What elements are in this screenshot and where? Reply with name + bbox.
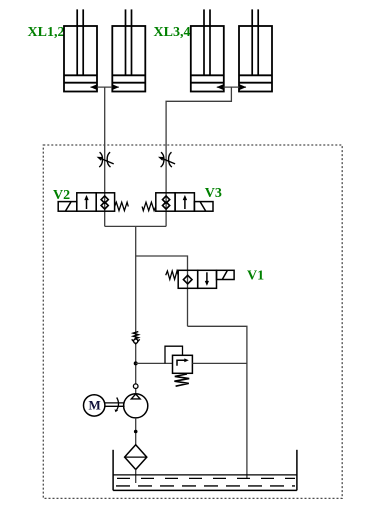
- valve V3: [142, 193, 213, 211]
- position square V1 arrow-down: [198, 270, 217, 288]
- node above filter: [134, 430, 138, 434]
- wire pair2 feed with arrows into XL3 and XL4: [217, 84, 247, 90]
- position square V3 arrow-up: [175, 193, 194, 211]
- wire pair2 jog down-left to V3: [166, 87, 231, 226]
- check valve on main line: [132, 332, 140, 344]
- position square V1 check: [178, 270, 198, 288]
- position square V2 check: [96, 193, 114, 211]
- throttle valve above V3: [158, 152, 175, 167]
- svg-text:XL1,2: XL1,2: [28, 25, 65, 40]
- svg-text:XL3,4: XL3,4: [154, 25, 191, 40]
- dashed enclosure border: [43, 145, 342, 498]
- solenoid box V1: [217, 270, 235, 279]
- position square V3 check: [156, 193, 175, 211]
- spring V1: [166, 271, 179, 279]
- wire pump suction down: [135, 418, 137, 445]
- wire V1 down and over to return: [188, 326, 247, 478]
- node junction to relief valve: [134, 361, 138, 365]
- valve V1: [166, 270, 234, 288]
- motor M: [84, 395, 105, 416]
- cylinder XL3: [191, 9, 224, 91]
- relief valve spring: [174, 374, 189, 386]
- port circle above pump: [133, 384, 138, 389]
- wire relief valve out to return line: [192, 362, 247, 364]
- spring V2: [115, 202, 129, 210]
- svg-text:M: M: [88, 397, 100, 412]
- position square V2 arrow-up: [77, 193, 96, 211]
- wire branch to V1: [136, 256, 188, 326]
- svg-text:V1: V1: [247, 269, 264, 284]
- solenoid box V2: [58, 202, 77, 212]
- cylinder XL4: [239, 9, 272, 91]
- throttle valve above V2: [97, 152, 114, 167]
- spring V3: [142, 202, 156, 210]
- wire main pressure line down: [135, 226, 137, 393]
- wire pair1 feed with arrows into XL1 and XL2: [90, 84, 119, 90]
- solenoid box V3: [194, 202, 213, 212]
- relief valve: [165, 346, 192, 386]
- pump: [124, 394, 148, 418]
- cylinder XL2: [112, 9, 145, 91]
- svg-text:V3: V3: [205, 186, 222, 201]
- svg-text:V2: V2: [53, 188, 70, 203]
- filter: [125, 445, 147, 470]
- wire to relief valve: [136, 362, 173, 364]
- wire manifold horizontal: [105, 225, 166, 227]
- tank: [113, 450, 297, 491]
- valve V2: [58, 193, 128, 211]
- wire filter to tank: [135, 470, 137, 484]
- shaft motor-pump: [105, 398, 125, 413]
- wire pair1 down to V2: [104, 87, 106, 226]
- relief valve pilot line: [165, 346, 183, 363]
- cylinder XL1: [64, 9, 97, 91]
